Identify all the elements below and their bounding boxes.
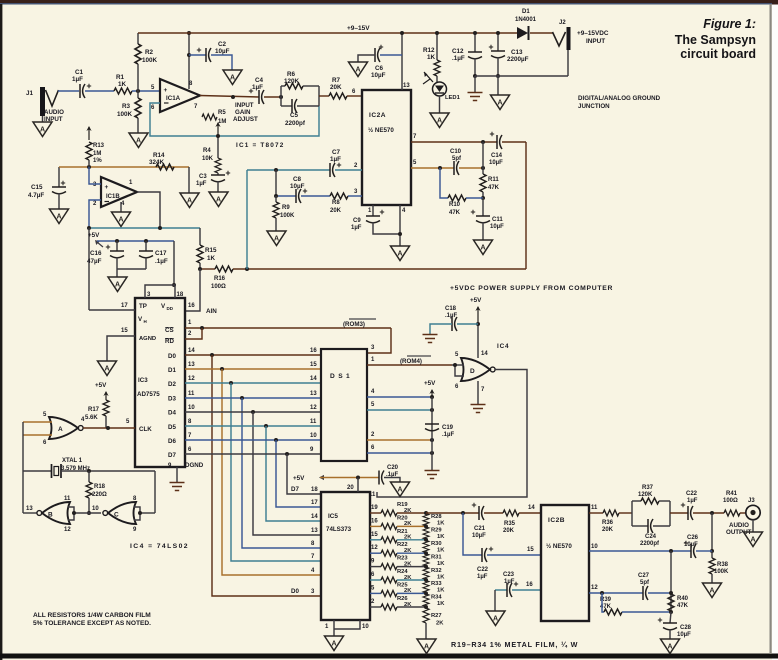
svg-text:+5V: +5V [424,380,436,387]
gate IC4A [49,417,78,439]
ground [98,361,117,376]
ground [349,62,368,77]
svg-text:16: 16 [526,582,533,588]
svg-text:The Sampsyn: The Sampsyn [675,33,756,47]
wire loop right [525,142,527,269]
svg-text:C16: C16 [90,250,102,257]
ground [661,639,680,654]
svg-text:D4: D4 [168,410,176,417]
svg-text:18: 18 [177,292,184,298]
ground [474,240,493,255]
svg-text:circuit board: circuit board [680,47,756,61]
svg-text:2K: 2K [404,588,412,594]
svg-text:R15: R15 [205,247,217,254]
svg-text:+: + [164,87,168,94]
svg-text:R36: R36 [602,520,614,526]
wire [137,91,139,98]
svg-text:R34: R34 [431,595,442,601]
svg-text:19: 19 [371,505,378,511]
wire [117,268,146,270]
wire [347,95,362,97]
ground [209,192,228,207]
svg-text:D0: D0 [291,588,299,595]
svg-text:R3: R3 [122,103,131,110]
IC2A box [362,90,411,205]
ground [391,246,410,261]
wire gate D pin7 ground [477,381,479,404]
wire [61,470,155,472]
wire [233,268,526,270]
wire [211,55,232,70]
ground [391,482,410,497]
svg-text:DGND: DGND [185,462,204,469]
ground [430,113,449,128]
svg-text:1K: 1K [207,255,216,262]
svg-text:R8: R8 [332,200,340,206]
svg-text:B: B [48,512,53,519]
ground [491,95,510,110]
svg-text:17: 17 [311,500,318,506]
svg-text:C22: C22 [686,491,698,497]
resistor R30 [423,540,429,552]
svg-text:ADJUST: ADJUST [233,116,258,123]
svg-text:1%: 1% [93,158,102,164]
svg-text:100K: 100K [142,57,158,64]
wire [132,90,160,92]
svg-text:10: 10 [92,506,99,512]
IC5 box [321,492,370,620]
wire pin2 row [247,169,330,171]
gate IC4C [108,502,136,524]
svg-text:J3: J3 [748,498,755,504]
wire C22 branch [463,513,482,555]
wire D5 drop to IC5 [266,426,321,521]
gate IC4B [42,502,70,524]
svg-text:C13: C13 [511,49,523,56]
wire VDD pins 3,18 [145,285,175,298]
wire oscillator feedback [154,471,156,513]
svg-text:.1µF: .1µF [452,55,465,62]
svg-text:+9–15VDC: +9–15VDC [577,30,609,37]
wire [752,520,754,533]
wire pin2-pin3 tie [275,170,277,196]
svg-text:100Ω: 100Ω [211,284,226,290]
svg-text:2K: 2K [404,548,412,554]
svg-text:C4: C4 [255,77,264,84]
svg-text:AIN: AIN [206,308,217,315]
svg-text:IC4: IC4 [497,343,509,350]
svg-text:10: 10 [591,544,598,550]
svg-text:R41: R41 [726,491,738,497]
svg-text:C20: C20 [387,465,399,471]
svg-text:D1: D1 [522,9,530,15]
ground [50,209,69,224]
svg-text:13: 13 [188,362,195,368]
svg-text:15: 15 [310,362,317,368]
svg-text:C: C [114,512,119,519]
svg-text:H: H [144,319,147,324]
svg-text:13: 13 [310,391,317,397]
svg-text:+: + [105,184,109,191]
capacitor C6 [380,54,402,56]
svg-text:R10: R10 [449,202,461,208]
svg-text:R1: R1 [116,74,125,81]
gate IC4D [461,358,490,381]
svg-text:15: 15 [527,547,534,553]
wire [530,32,553,34]
svg-text:1µF: 1µF [351,225,362,231]
svg-text:10µF: 10µF [677,632,691,638]
wire gate A inputs [23,421,52,423]
svg-text:D6: D6 [168,438,176,445]
svg-text:IC4 = 74LS02: IC4 = 74LS02 [130,543,189,550]
svg-text:R6: R6 [287,71,296,78]
svg-text:R16: R16 [214,276,226,282]
wire [58,90,79,92]
svg-text:(ROM4): (ROM4) [400,358,422,365]
svg-text:AGND: AGND [139,336,156,342]
svg-text:J2: J2 [559,20,566,26]
svg-text:220Ω: 220Ω [92,492,107,498]
resistor R32 [423,567,429,579]
wire data bus D4 [185,411,321,413]
svg-text:C7: C7 [332,149,341,156]
svg-text:10: 10 [310,433,317,439]
svg-text:1µF: 1µF [477,574,488,580]
svg-text:+5V: +5V [88,232,100,239]
wire pin2 [89,200,101,228]
svg-text:D2: D2 [168,381,176,388]
svg-text:AUDIO: AUDIO [44,109,64,116]
svg-text:20K: 20K [330,84,342,91]
svg-text:.1µF: .1µF [155,258,168,265]
wire [85,90,114,92]
ground [112,212,131,227]
svg-text:2K: 2K [404,561,412,567]
svg-text:4.7µF: 4.7µF [28,192,44,199]
svg-text:13: 13 [403,83,410,89]
ground [129,133,148,148]
svg-text:10: 10 [362,624,369,630]
page border [0,0,778,5]
svg-text:+5VDC POWER SUPPLY FROM COMPUT: +5VDC POWER SUPPLY FROM COMPUTER [450,285,613,292]
svg-text:10µF: 10µF [290,183,305,190]
svg-text:12: 12 [310,405,317,411]
svg-text:C27: C27 [638,573,650,579]
svg-text:120K: 120K [638,492,653,498]
svg-text:20: 20 [347,485,354,491]
wire D3 drop to IC5 [242,398,321,548]
svg-text:Figure 1:: Figure 1: [703,17,756,31]
wire [494,590,496,611]
svg-text:2200µF: 2200µF [507,56,529,63]
svg-text:R9: R9 [282,205,290,211]
svg-text:47K: 47K [488,185,500,191]
svg-text:+5V: +5V [470,297,482,304]
resistor R34 [423,594,429,607]
svg-text:C26: C26 [687,535,699,541]
svg-text:5% TOLERANCE EXCEPT AS NOTED.: 5% TOLERANCE EXCEPT AS NOTED. [33,620,151,627]
svg-text:+9–15V: +9–15V [347,25,370,32]
svg-text:XTAL 1: XTAL 1 [62,458,83,464]
wire [670,551,672,612]
op-amp IC1A [160,79,200,112]
wire [567,50,569,76]
svg-text:D0: D0 [168,353,176,360]
resistor R28 [423,514,429,526]
wire +9-15V rail [138,32,517,34]
svg-text:C18: C18 [445,306,457,312]
IC2B box [541,505,589,621]
svg-text:R29: R29 [431,528,442,534]
svg-text:14: 14 [481,351,488,357]
svg-text:R31: R31 [431,554,442,560]
LED1 [433,82,447,96]
wire data bus D0 [185,354,321,356]
svg-text:5pf: 5pf [640,580,650,586]
ground [486,611,505,626]
svg-text:1K: 1K [437,561,445,567]
svg-text:R32: R32 [431,568,442,574]
svg-text:D5: D5 [168,424,176,431]
svg-text:IC5: IC5 [328,513,338,520]
svg-text:14: 14 [310,376,317,382]
svg-text:C23: C23 [503,572,515,578]
svg-text:2K: 2K [404,508,412,514]
svg-text:12: 12 [591,585,598,591]
svg-text:R40: R40 [677,596,689,602]
svg-text:R28: R28 [431,514,442,520]
svg-text:C22: C22 [477,567,489,573]
svg-text:R33: R33 [431,581,442,587]
svg-text:.1µF: .1µF [442,432,454,438]
svg-text:47µF: 47µF [87,258,102,265]
svg-text:1K: 1K [437,521,445,527]
svg-text:C21: C21 [474,526,486,532]
svg-text:10µF: 10µF [472,533,486,539]
ground [267,231,286,246]
svg-text:R38: R38 [717,562,729,568]
svg-text:½ NE570: ½ NE570 [368,127,394,134]
wire D4 drop to IC5 [253,412,321,535]
wire oscillator left column [22,422,24,513]
wire D2 drop to IC5 [231,383,321,561]
svg-text:1K: 1K [118,81,127,88]
svg-text:16: 16 [188,303,195,309]
svg-text:JUNCTION: JUNCTION [578,103,610,110]
svg-text:R7: R7 [332,77,341,84]
svg-text:10µF: 10µF [489,160,503,166]
wire [42,116,44,122]
svg-text:D7: D7 [291,486,299,493]
svg-text:1M: 1M [218,119,226,125]
svg-text:C15: C15 [31,184,43,191]
wire data bus D1 [185,368,321,370]
wire [264,96,281,98]
svg-text:AUDIO: AUDIO [729,522,749,529]
svg-text:2200pf: 2200pf [285,120,306,127]
svg-text:+5V: +5V [293,475,305,482]
wire D0 drop to IC5 [212,355,321,596]
svg-text:IC1A: IC1A [166,95,181,102]
svg-text:1µF: 1µF [252,84,263,91]
svg-text:20K: 20K [330,208,342,214]
svg-text:12: 12 [188,376,195,382]
svg-text:1M: 1M [93,151,101,157]
svg-text:DD: DD [167,306,174,311]
svg-text:CS: CS [165,327,174,334]
svg-text:13: 13 [311,528,318,534]
wire ground junction row [475,75,568,77]
svg-text:R18: R18 [94,484,106,490]
resistor R31 [423,554,429,566]
resistor R8 [301,195,330,197]
wire data bus D7 [185,453,321,455]
wire data bus D5 [185,425,321,427]
svg-text:10K: 10K [202,156,214,162]
svg-text:47K: 47K [677,603,689,609]
wire data bus D3 [185,397,321,399]
svg-text:2200pf: 2200pf [640,541,660,547]
wire pin6 feedback [150,103,319,136]
svg-text:13: 13 [26,506,33,512]
svg-text:IC1 = T8072: IC1 = T8072 [236,142,285,149]
digital ground [425,471,440,479]
svg-text:GAIN: GAIN [235,109,251,116]
svg-text:1K: 1K [437,534,445,540]
wire VDD column [173,241,175,285]
svg-text:14: 14 [188,348,195,354]
svg-text:D S 1: D S 1 [330,373,351,380]
svg-text:J1: J1 [26,90,34,97]
svg-text:2K: 2K [436,621,444,627]
wire gate B output [23,512,37,514]
wire [439,96,441,113]
svg-text:C19: C19 [442,425,454,431]
svg-text:R30: R30 [431,541,442,547]
wire output [137,192,160,228]
svg-text:2K: 2K [404,535,412,541]
svg-text:R5: R5 [218,110,226,116]
wire [188,167,190,193]
svg-text:1K: 1K [437,574,445,580]
wire pin17 column [88,228,90,310]
wire pin4 ground [120,202,122,212]
svg-text:11: 11 [591,505,598,511]
wire AIN rail [200,268,215,270]
ground [108,277,127,292]
digital ground DGND [170,483,185,491]
ground [744,532,763,547]
svg-text:100K: 100K [280,213,295,219]
wire D1 drop to IC5 [222,369,321,575]
svg-text:C6: C6 [375,65,384,72]
svg-text:74LS373: 74LS373 [326,526,352,533]
svg-text:C24: C24 [645,534,657,540]
svg-text:11: 11 [310,419,317,425]
DS1 box [321,349,367,461]
wire gate D inputs [452,365,464,376]
ground [703,583,722,598]
resistor R29 [423,527,429,539]
digital ground [471,405,486,413]
wire [137,64,139,91]
wire [319,95,329,97]
svg-text:IC2B: IC2B [548,517,565,524]
svg-text:16: 16 [371,518,378,524]
svg-text:1µF: 1µF [504,579,515,585]
svg-text:C10: C10 [450,149,462,155]
svg-text:R17: R17 [88,407,100,413]
svg-text:R14: R14 [153,152,165,159]
wire gate D output loop [377,370,527,498]
wire data bus D6 [185,439,321,441]
svg-text:10µF: 10µF [371,72,386,79]
wire gate A output / CLK [83,427,135,429]
svg-text:16: 16 [310,348,317,354]
svg-text:R35: R35 [504,521,516,527]
svg-text:5.6K: 5.6K [85,415,98,421]
resistor R33 [423,581,429,593]
resistor R27 [423,608,429,623]
svg-text:1µF: 1µF [72,76,83,83]
svg-text:RD: RD [165,338,174,345]
svg-text:1K: 1K [437,588,445,594]
ground [180,193,199,208]
wire pin8 / C2 column [188,33,190,89]
svg-text:C11: C11 [492,217,503,223]
svg-text:TP: TP [139,303,147,310]
svg-text:10µF: 10µF [490,224,504,230]
svg-text:2K: 2K [404,575,412,581]
svg-text:1K: 1K [437,601,445,607]
svg-text:10µF: 10µF [215,48,230,55]
svg-text:11: 11 [64,496,71,502]
svg-text:C28: C28 [680,625,692,631]
wire data bus D2 [185,382,321,384]
svg-text:R4: R4 [203,148,211,154]
svg-text:D1: D1 [168,367,176,374]
svg-text:C1: C1 [75,69,84,76]
svg-text:+5V: +5V [95,382,107,389]
svg-text:C3: C3 [199,174,207,180]
svg-text:R13: R13 [93,143,105,149]
svg-text:1µF: 1µF [196,181,207,187]
svg-text:INPUT: INPUT [586,38,605,45]
ground [417,639,436,654]
wire +5V cap rail [97,242,103,247]
wire gate B inputs [68,507,74,520]
svg-text:INPUT: INPUT [235,102,254,109]
svg-text:11: 11 [188,391,195,397]
wire output node to R38 [711,513,713,551]
wire C7 drop [246,170,248,269]
svg-text:20K: 20K [503,528,515,534]
wire D6 drop to IC5 [276,440,321,507]
svg-text:IC3: IC3 [138,377,148,384]
IC3 box [135,298,185,467]
wire DAC output node [426,512,479,514]
svg-text:R11: R11 [488,177,499,183]
svg-text:IC2A: IC2A [369,112,386,119]
svg-text:D: D [470,368,475,375]
ground [33,122,52,137]
svg-text:C12: C12 [452,48,464,55]
svg-text:1N4001: 1N4001 [515,17,537,23]
svg-text:C17: C17 [155,250,167,257]
svg-text:R2: R2 [145,49,154,56]
op-amp IC1B [101,177,137,207]
